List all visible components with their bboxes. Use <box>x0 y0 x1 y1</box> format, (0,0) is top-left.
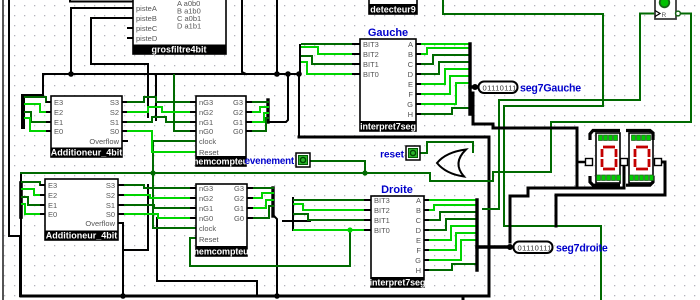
wire droite output B <box>428 205 476 210</box>
wire memcompteur1 G-rail exit up to y=73 <box>268 74 288 122</box>
wire droite BIT3 feed <box>294 199 371 201</box>
svg-text:G2: G2 <box>234 194 244 203</box>
wire adder1 E1 feed <box>25 112 51 122</box>
wire droite output C <box>428 212 476 220</box>
wire long horizontal black run y=73 <box>43 73 299 75</box>
button B2 reset <box>406 146 420 160</box>
wire gauche output A <box>420 43 469 45</box>
wire rail x=157 step to bottom run <box>157 218 257 296</box>
wire S2 to nG2 tier1 <box>127 107 190 112</box>
junction dot droite rail bottom <box>274 293 280 299</box>
svg-text:nG2: nG2 <box>199 194 213 203</box>
svg-text:G: G <box>415 256 421 265</box>
svg-text:memcompteur: memcompteur <box>191 157 253 167</box>
wire long black run y=137 to right vertical x=489 <box>299 137 489 296</box>
svg-text:pisteC: pisteC <box>136 24 158 33</box>
svg-text:G2: G2 <box>233 108 243 117</box>
svg-text:nG3: nG3 <box>199 98 213 107</box>
wire S2 to nG2 tier2 <box>124 195 196 198</box>
wire droite output E <box>428 226 476 240</box>
svg-text:A: A <box>408 40 413 49</box>
svg-text:pisteD: pisteD <box>136 34 158 43</box>
svg-text:memcompteur: memcompteur <box>191 247 253 257</box>
wire G3 tier1 to rail <box>252 101 268 103</box>
svg-text:pisteB: pisteB <box>136 14 157 23</box>
svg-text:F: F <box>416 246 421 255</box>
svg-text:S3: S3 <box>106 181 115 190</box>
junction dot clock net memcompteur tap <box>150 170 155 175</box>
svg-text:C: C <box>408 60 414 69</box>
svg-text:nG2: nG2 <box>199 108 213 117</box>
subcircuit U2 detecteur9 <box>369 0 417 15</box>
junction dot x=288 <box>285 71 291 77</box>
subcircuit U5 memcompteur 1 <box>190 96 252 167</box>
subcircuit U8 interpret7seg Droite <box>364 184 429 288</box>
svg-text:E: E <box>408 80 413 89</box>
svg-text:01110111: 01110111 <box>483 84 517 93</box>
svg-text:E3: E3 <box>48 181 57 190</box>
svg-text:G0: G0 <box>233 127 243 136</box>
wire droite BIT0 long <box>294 229 371 231</box>
wire S1 to nG1 tier2 <box>124 205 196 208</box>
wire rail drop x=156 into adder1 S staircase <box>155 74 157 120</box>
svg-text:D: D <box>408 70 414 79</box>
svg-text:G3: G3 <box>233 98 243 107</box>
svg-text:S3: S3 <box>110 98 119 107</box>
wire droite bit rail connector <box>283 220 310 222</box>
svg-text:Gauche: Gauche <box>368 27 408 39</box>
wire adder1 E2 feed <box>25 104 51 112</box>
svg-text:G1: G1 <box>234 204 244 213</box>
splitter U_spl1 tap to pin <box>470 85 477 88</box>
svg-text:pisteA: pisteA <box>136 4 157 13</box>
wire gauche BIT0 feed <box>302 62 360 74</box>
subcircuit U3 interpret7seg Gauche <box>352 27 421 132</box>
wire clock feeds for memcompteur1 and memcompteur2 <box>153 141 196 228</box>
wire G0 tier1 to rail <box>252 118 268 131</box>
splitter U_spl2 tap to pin <box>477 245 508 248</box>
wire gauche output E <box>420 69 469 84</box>
output pin P1 seg7Gauche <box>479 82 582 95</box>
wire memcompteur2 G-rail thick <box>271 188 274 216</box>
wire vertical from top edge x=242 <box>242 0 246 74</box>
svg-text:G0: G0 <box>234 214 244 223</box>
svg-text:Droite: Droite <box>381 184 413 196</box>
wire corner feeding adder1 input rail <box>23 74 43 127</box>
wire G2 tier2 to rail <box>252 193 273 198</box>
wire G2 tier1 to rail <box>252 107 268 112</box>
splitter U_spl1 spine for seg7Gauche <box>468 44 471 114</box>
wire memcompteur2 G-rail jog down to bottom run <box>273 188 277 296</box>
wire rail x=299 up to Gauche input bundle and down to y=137 run <box>299 45 300 137</box>
junction dot evenement tap <box>362 170 367 175</box>
wire 8-bit bus from seg7droite pin to display2 <box>510 166 624 242</box>
svg-text:G3: G3 <box>234 184 244 193</box>
svg-text:E2: E2 <box>48 191 57 200</box>
svg-text:BIT0: BIT0 <box>363 70 379 79</box>
wire gauche output F <box>420 76 469 94</box>
svg-text:BIT2: BIT2 <box>374 206 390 215</box>
wire G3 tier2 to rail <box>252 187 273 189</box>
svg-text:Additioneur_4bit: Additioneur_4bit <box>51 148 123 158</box>
svg-text:BIT0: BIT0 <box>374 226 390 235</box>
svg-text:BIT3: BIT3 <box>363 40 379 49</box>
svg-text:Overflow: Overflow <box>89 137 119 146</box>
junction dot BIT0 reset2 tap <box>347 227 352 232</box>
wire S1 to nG1 tier1 <box>127 117 190 122</box>
svg-text:Reset: Reset <box>199 235 220 244</box>
wire gauche BIT2 feed <box>302 47 360 54</box>
wire pisteA net: pin pisteA to long horizontal bus row y=73 <box>71 8 133 74</box>
wire black vertical left edge x=9 down to bottom rail <box>9 0 20 296</box>
wire adder2 E0 feed <box>22 204 45 214</box>
or-gate G1 facing west <box>437 150 466 177</box>
button B1 evenement <box>296 153 310 167</box>
wire gauche output H <box>420 108 469 114</box>
wire gauche output B <box>420 48 469 54</box>
wire display2 right-side hook <box>556 162 665 226</box>
junction dot seg7Gauche pin tap <box>472 84 478 90</box>
svg-text:BIT2: BIT2 <box>363 50 379 59</box>
subcircuit U4 Additioneur_4bit 1 <box>46 96 128 158</box>
svg-text:reset: reset <box>380 150 405 161</box>
wire droite output D <box>428 219 476 230</box>
wire evenement button to clock net <box>310 161 365 173</box>
svg-text:Additioneur_4bit: Additioneur_4bit <box>46 231 118 241</box>
wire flipflop clock input serpentine <box>483 14 654 210</box>
svg-text:seg7droite: seg7droite <box>556 243 608 255</box>
svg-text:R: R <box>662 12 667 19</box>
wire evenement clock net long horizontal y=173 with OR-gate jog, to flipflop reset bubble <box>21 14 691 182</box>
junction dot x=299 <box>296 71 302 77</box>
wire gauche output D <box>420 62 469 74</box>
subcircuit U1 grosfiltre4bit <box>127 0 226 55</box>
wire droite output A <box>428 199 476 201</box>
svg-text:BIT1: BIT1 <box>363 60 379 69</box>
wire droite bit rail vertical <box>292 198 294 230</box>
svg-text:detecteur9: detecteur9 <box>370 5 416 15</box>
wire droite output F <box>428 233 476 250</box>
wire pisteB net to rail x=148 <box>91 18 148 117</box>
svg-text:nG1: nG1 <box>199 204 213 213</box>
wire vertical from top edge x=277 <box>276 0 278 74</box>
svg-text:seg7Gauche: seg7Gauche <box>520 83 581 95</box>
svg-text:G: G <box>407 100 413 109</box>
svg-text:grosfiltre4bit: grosfiltre4bit <box>151 45 206 55</box>
svg-text:S2: S2 <box>110 108 119 117</box>
wire droite BIT2 feed <box>294 204 371 210</box>
svg-text:B: B <box>408 50 413 59</box>
wire bottom long black run y=296 <box>21 295 489 298</box>
wire adder1 E0 feed <box>25 118 51 131</box>
svg-text:BIT1: BIT1 <box>374 216 390 225</box>
svg-text:E1: E1 <box>48 201 57 210</box>
wire top edge into grosfiltre upper pin <box>70 0 133 2</box>
svg-text:H: H <box>416 266 421 275</box>
7-segment display DS2 <box>621 131 662 186</box>
svg-text:S2: S2 <box>106 191 115 200</box>
svg-text:clock: clock <box>199 137 216 146</box>
wire memcompteur1 G-rail thick <box>266 100 269 122</box>
svg-text:E1: E1 <box>54 118 63 127</box>
svg-text:interpret7seg: interpret7seg <box>360 122 416 132</box>
svg-text:BIT3: BIT3 <box>374 196 390 205</box>
svg-text:E3: E3 <box>54 98 63 107</box>
wire gauche output C <box>420 55 469 64</box>
svg-text:clock: clock <box>199 224 216 233</box>
svg-text:B: B <box>416 206 421 215</box>
svg-text:A: A <box>416 196 421 205</box>
wire bottom exit stub x=463 <box>462 296 465 300</box>
svg-text:E0: E0 <box>48 210 57 219</box>
wire stub to display1 input tab <box>577 161 586 164</box>
wire G1 tier1 to rail <box>252 113 268 122</box>
wire G1 tier2 to rail <box>252 200 273 208</box>
wire droite BIT1 feed <box>294 214 371 220</box>
svg-text:evenement: evenement <box>245 156 295 167</box>
wire left rail x=21 from y=173 down to bottom run <box>20 173 22 296</box>
svg-text:Reset: Reset <box>199 148 220 157</box>
svg-text:E: E <box>416 236 421 245</box>
wire 8-bit bus from seg7Gauche pin to display1 <box>473 93 600 188</box>
svg-text:E2: E2 <box>54 108 63 117</box>
splitter U_spl2 spine for seg7droite <box>475 200 478 270</box>
wire gauche BIT1 feed <box>302 56 360 64</box>
svg-text:nG0: nG0 <box>199 127 213 136</box>
wire adder2 input rail thick section <box>19 183 23 217</box>
svg-text:H: H <box>408 110 413 119</box>
svg-text:nG1: nG1 <box>199 118 213 127</box>
svg-text:S1: S1 <box>106 201 115 210</box>
wire droite output H <box>428 264 476 270</box>
svg-text:01110111: 01110111 <box>518 244 552 253</box>
svg-text:interpret7seg: interpret7seg <box>370 278 426 288</box>
svg-text:S0: S0 <box>110 127 119 136</box>
svg-text:Overflow: Overflow <box>85 219 115 228</box>
wire adder2 E1 feed <box>22 197 45 205</box>
wire reset2 net <box>190 230 350 266</box>
7-segment display DS1 <box>586 131 621 186</box>
wire S0 to Reset1 (bright) <box>127 131 196 152</box>
wire gauche output G <box>420 83 469 104</box>
junction dot pisteA <box>68 71 74 77</box>
flip-flop U9 with LED top right <box>655 0 680 19</box>
wire hook rail2 x=148 down elbow <box>123 185 148 250</box>
svg-text:S1: S1 <box>110 118 119 127</box>
wire S3 to nG3 tier2 <box>124 185 196 188</box>
wire S3 to nG3 tier1 <box>127 97 190 102</box>
svg-text:E0: E0 <box>54 127 63 136</box>
svg-text:D: D <box>416 226 422 235</box>
svg-text:G1: G1 <box>233 118 243 127</box>
wire reset button to OR gate top input <box>420 142 473 153</box>
junction dot x=277 <box>274 71 280 77</box>
svg-text:F: F <box>408 90 413 99</box>
junction dot overflow2 bottom <box>120 293 126 299</box>
wire S0 to nG0 tier2 <box>124 214 196 218</box>
svg-text:S0: S0 <box>106 210 115 219</box>
wire overflow2 drop x=123 to bottom run <box>118 223 123 296</box>
wire adder2 E3 feed <box>22 182 45 185</box>
wire gauche BIT3 feed <box>302 43 360 45</box>
wire adder1 E3 feed <box>25 97 51 102</box>
wire adder2 E2 feed <box>22 189 45 195</box>
junction dot seg7droite pin tap <box>507 244 513 250</box>
svg-text:nG0: nG0 <box>199 214 213 223</box>
svg-text:D a1b1: D a1b1 <box>177 22 201 31</box>
svg-text:C: C <box>416 216 422 225</box>
wire detecteur9 output serpentine (dark green) to bottom right exit <box>443 0 603 300</box>
wire nG0 feed tap (dark green) <box>174 75 196 131</box>
wire adder1 input rail thick section <box>21 96 25 127</box>
wire droite output G <box>428 240 476 260</box>
svg-text:nG3: nG3 <box>199 184 213 193</box>
output pin P2 seg7droite <box>514 242 608 255</box>
canvas border left edge <box>2 0 4 300</box>
subcircuit U7 memcompteur 2 <box>190 184 253 257</box>
subcircuit U6 Additioneur_4bit 2 <box>40 179 124 241</box>
wire G0 tier2 to rail <box>252 206 273 218</box>
